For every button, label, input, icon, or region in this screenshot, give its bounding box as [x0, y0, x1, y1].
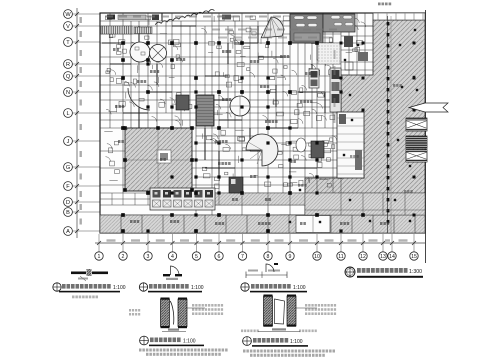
- hatch area markers: [289, 29, 418, 223]
- stipple garden: [318, 43, 340, 64]
- detail title 2: [139, 283, 147, 291]
- elevator core lower: [150, 188, 215, 210]
- grid bubble Q: [64, 72, 100, 81]
- svg-text:1: 1: [98, 254, 101, 260]
- grid bubble L: [64, 109, 100, 118]
- stair core upper: [196, 95, 214, 126]
- grid bubble N: [64, 88, 100, 97]
- svg-text:7: 7: [241, 254, 244, 260]
- grid bubble 12: [362, 234, 364, 252]
- interior clutter: [104, 16, 366, 189]
- wall section A piers: [161, 298, 188, 329]
- band dividers: [112, 193, 405, 215]
- roadway line: [387, 16, 389, 233]
- svg-text:1:100: 1:100: [183, 338, 196, 344]
- room labels: [113, 48, 119, 51]
- grid bubble T: [64, 38, 100, 47]
- fan shell top: [261, 17, 283, 38]
- svg-text:9: 9: [289, 254, 292, 260]
- grid bubble 5: [196, 234, 198, 252]
- wall section A leader: [187, 307, 205, 309]
- grid bubble W: [64, 10, 100, 19]
- grid bubble R: [64, 60, 100, 69]
- top elevation note: [378, 3, 391, 6]
- svg-text:4: 4: [171, 254, 174, 260]
- svg-text:G: G: [66, 165, 70, 171]
- svg-text:1:300: 1:300: [409, 269, 422, 275]
- wall section B piers: [264, 295, 297, 327]
- svg-text:10: 10: [314, 254, 320, 260]
- grid bubble 1: [98, 234, 100, 252]
- svg-text:D: D: [66, 200, 70, 206]
- interior dim strings: [212, 29, 220, 31]
- left grid line: [76, 8, 78, 238]
- svg-text:F: F: [66, 184, 70, 190]
- grid bubble F: [64, 182, 100, 191]
- zone diagram title: [345, 267, 355, 277]
- NE block dark cells: [344, 36, 353, 47]
- svg-text:L: L: [66, 111, 69, 117]
- grid bubble 3: [147, 234, 149, 252]
- round court 2 with X: [150, 45, 167, 62]
- detail title 5: [140, 336, 149, 345]
- round room lower-mid: [230, 96, 250, 116]
- room partition walls: [100, 13, 425, 233]
- joint line across hatch: [305, 209, 425, 211]
- detail title 1: [53, 283, 61, 291]
- grid bubble A: [64, 227, 100, 236]
- grid bubble B: [64, 208, 100, 217]
- grid bubble 4: [172, 234, 174, 252]
- svg-text:N: N: [66, 90, 70, 96]
- grid bubble D: [64, 198, 100, 207]
- plan outline: [100, 13, 425, 233]
- right border line: [425, 10, 427, 263]
- svg-text:6: 6: [218, 254, 221, 260]
- svg-text:15: 15: [411, 254, 417, 260]
- grid bubble 13: [382, 234, 384, 252]
- pump room equipment: [317, 44, 338, 60]
- machine room island: [337, 112, 364, 178]
- structural columns: [121, 41, 415, 233]
- round column court 1: [130, 42, 150, 62]
- grid bubble 10: [316, 234, 318, 252]
- wall section A dim: [162, 331, 186, 333]
- grid bubble V: [64, 22, 100, 31]
- hatched plaza region: [280, 20, 425, 233]
- grid bubble 11: [340, 234, 342, 252]
- svg-text:J: J: [67, 139, 70, 145]
- big quarter arc: [128, 88, 150, 110]
- svg-text:5: 5: [195, 254, 198, 260]
- striped canopy band: [101, 26, 132, 34]
- left dimension numbers: [80, 17, 82, 23]
- svg-text:1:100: 1:100: [113, 285, 126, 291]
- wall section B leader: [296, 307, 317, 309]
- svg-text:8: 8: [267, 254, 270, 260]
- detail title 6: [243, 337, 252, 346]
- svg-text:2: 2: [122, 254, 125, 260]
- grid bubble 7: [242, 234, 244, 252]
- revision cloud: [154, 9, 215, 24]
- svg-text:1:100: 1:100: [293, 285, 306, 291]
- grid bubble 8: [267, 234, 269, 252]
- svg-text:1:100: 1:100: [290, 339, 303, 345]
- svg-text:Q: Q: [66, 74, 71, 80]
- svg-text:V: V: [66, 24, 70, 30]
- top strip dark marks: [107, 15, 115, 20]
- bottom room strip: [100, 215, 425, 233]
- grid bubble 6: [218, 234, 220, 252]
- top dim strings: [105, 16, 113, 18]
- notes A: [139, 349, 228, 352]
- small dark cells: [229, 177, 243, 193]
- svg-text:12: 12: [360, 254, 366, 260]
- notes B: [243, 350, 335, 353]
- svg-text:T: T: [66, 40, 70, 46]
- detail icon 1: [71, 269, 108, 281]
- grid bubble 14: [391, 234, 393, 252]
- escalator blocks: [406, 118, 427, 131]
- svg-text:W: W: [65, 12, 71, 18]
- grid bubble 9: [289, 234, 291, 252]
- dark roof block: [290, 14, 323, 43]
- hatched hall: [125, 128, 192, 191]
- svg-text:11: 11: [338, 254, 343, 260]
- grid bubble J: [64, 137, 100, 146]
- svg-text:3: 3: [147, 254, 150, 260]
- wall section B dims: [258, 331, 300, 333]
- grid bubble G: [64, 163, 100, 172]
- svg-text:13: 13: [380, 254, 386, 260]
- bottom dimension line: [95, 242, 425, 244]
- detail title 3: [241, 283, 249, 291]
- shaft block: [176, 95, 189, 110]
- svg-text:1:100: 1:100: [191, 285, 204, 291]
- entry arrow: [409, 103, 448, 112]
- white shop in bottom band: [296, 216, 330, 233]
- svg-text:A: A: [66, 229, 70, 235]
- detail icon 3: [246, 263, 287, 278]
- svg-text:B: B: [66, 210, 70, 216]
- svg-text:R: R: [66, 62, 70, 68]
- detail icon 2: [163, 266, 182, 280]
- grid bubble 2: [122, 234, 124, 252]
- circular ramp: [246, 134, 278, 166]
- shaft cells mid: [309, 69, 319, 88]
- oval fixture: [296, 138, 306, 152]
- grid bubble 15: [413, 234, 415, 252]
- svg-text:14: 14: [389, 254, 395, 260]
